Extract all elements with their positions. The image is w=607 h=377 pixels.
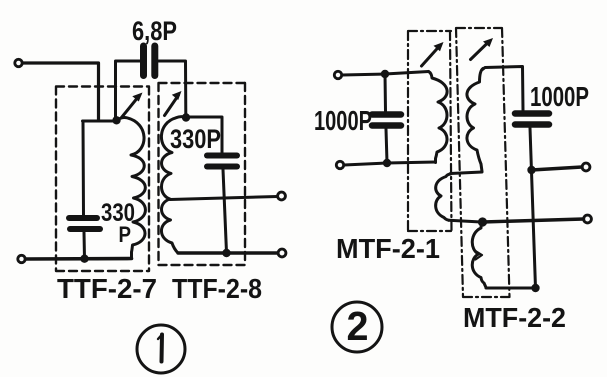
cusp tick on L6: [476, 251, 483, 260]
capacitor C4 1000P plate top: [372, 111, 401, 118]
wire T5 to L3: [342, 72, 429, 76]
svg-text:330P: 330P: [170, 124, 221, 154]
wire L4 bottom link: [449, 220, 481, 222]
wire link node A: [83, 120, 117, 123]
svg-text:2: 2: [347, 303, 369, 349]
wire T1 to coil top: [23, 63, 99, 121]
wire C1 right: [159, 61, 186, 115]
terminal T8 (bottom right): [584, 215, 592, 223]
svg-text:6,8P: 6,8P: [132, 16, 177, 46]
svg-text:TTF-2-8: TTF-2-8: [172, 273, 262, 304]
wire to C4: [384, 74, 388, 111]
capacitor C2 330P plate bottom: [70, 226, 100, 232]
svg-text:TTF-2-7: TTF-2-7: [57, 273, 157, 304]
junction dot T6 node: [383, 159, 391, 167]
terminal T2 (bottom left): [18, 255, 25, 262]
capacitor C5 1000P plate top: [515, 110, 549, 117]
junction dot bottom left: [80, 255, 88, 263]
capacitor C1 6.8P left plate: [140, 46, 147, 76]
wire C3 to bottom rail: [223, 170, 227, 253]
wire T6 to L3 bottom: [344, 162, 436, 165]
junction node at L1 top: [112, 116, 120, 124]
wire bottom rail left: [26, 257, 132, 261]
wire L5 top to C5: [483, 67, 524, 111]
junction dot middle: [478, 217, 487, 226]
wire tap to T3: [170, 197, 278, 200]
figure number 2 circle: [332, 302, 382, 352]
svg-text:MTF-2-2: MTF-2-2: [463, 302, 566, 333]
capacitor C3 330P plate top: [207, 153, 237, 159]
inductor L1 (TTF-2-7 primary): [117, 117, 146, 257]
figure number 1 circle: [137, 325, 185, 373]
inductor L5 (MTF-2-2 primary): [467, 69, 483, 172]
trimmer arrow on L2: [165, 95, 179, 116]
dashed box TTF-2-7: [56, 87, 149, 272]
svg-text:MTF-2-1: MTF-2-1: [336, 233, 440, 264]
inductor L3 (MTF-2-1 primary): [429, 72, 448, 163]
capacitor C3 330P plate bottom: [207, 164, 237, 170]
capacitor C1 6.8P right plate: [151, 46, 158, 76]
wire L6 bottom: [486, 287, 536, 290]
junction dot bottom: [531, 284, 539, 292]
svg-text:P: P: [119, 222, 132, 247]
wire to T7: [532, 167, 583, 170]
trimmer arrow on L5: [471, 42, 490, 60]
wire C2 to bottom rail: [83, 233, 87, 259]
svg-text:1000P: 1000P: [314, 105, 372, 136]
wire L4 top link: [451, 172, 483, 174]
wire bottom rail right: [178, 251, 278, 254]
wire C1 left: [116, 61, 141, 119]
inductor L6 (MTF-2-2 secondary): [472, 223, 486, 288]
wire to T8: [483, 219, 584, 222]
inductor L2 (TTF-2-8 secondary): [161, 117, 186, 253]
capacitor C5 1000P plate bottom: [515, 121, 549, 128]
terminal T4 (right lower): [278, 249, 286, 257]
dash-dot box MTF-2-1: [408, 31, 452, 231]
terminal T5 (top left): [334, 71, 341, 78]
svg-text:1000P: 1000P: [530, 81, 589, 112]
dash-dot box MTF-2-2: [456, 28, 510, 297]
terminal T7 (top right): [582, 163, 590, 171]
figure number 1 glyph: [160, 335, 165, 362]
terminal T6 (bottom left): [336, 161, 343, 168]
terminal T3 (right upper): [278, 192, 286, 200]
wire C4 to bottom: [386, 129, 387, 163]
junction dot T5 node: [381, 70, 389, 78]
trimmer arrow on L1: [122, 97, 139, 118]
wire down to capacitor C2: [82, 121, 86, 215]
capacitor C4 1000P plate bottom: [372, 122, 401, 129]
junction node at L2 top: [182, 113, 190, 121]
capacitor C2 330P plate top: [69, 215, 97, 221]
terminal T1 (top left): [15, 59, 22, 66]
inductor L4 (MTF-2-1 secondary): [436, 174, 451, 220]
junction dot bottom right: [222, 249, 230, 257]
wire L2 top to C3: [186, 117, 222, 153]
dashed box TTF-2-8: [159, 83, 246, 265]
wire C5 down right vertical: [530, 128, 536, 288]
junction dot right top: [527, 166, 535, 174]
trimmer arrow on L3: [422, 46, 440, 66]
